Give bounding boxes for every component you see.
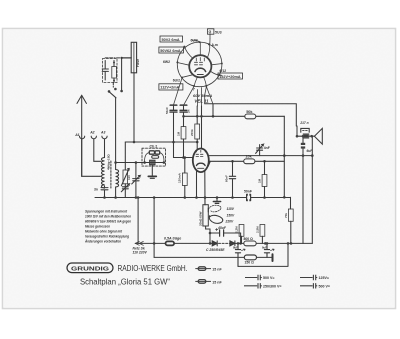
antenna coil L1	[102, 158, 105, 189]
paper speckle	[4, 30, 394, 307]
bandfilter dashed box Ch2	[142, 148, 166, 166]
notes text block	[84, 210, 131, 244]
resistor R10	[261, 236, 263, 243]
chassis plate	[272, 254, 274, 261]
anode wire to transformer	[205, 104, 297, 126]
dial lamp loops	[209, 205, 221, 212]
electrolytic C11 8uF	[235, 243, 240, 266]
capacitor C1 in selector	[102, 61, 108, 81]
capacitor C9 50nF vert	[229, 161, 235, 197]
vertical x154	[153, 198, 155, 258]
wire ballast bottom down	[206, 226, 210, 243]
wire to speaker	[297, 135, 314, 137]
boxed label 50V62 6mA	[159, 47, 184, 53]
speaker LS	[314, 128, 322, 144]
wire bar bottom down	[133, 73, 135, 142]
vertical x138	[137, 198, 139, 244]
variable coil L3	[123, 170, 128, 184]
ground bus y197.5	[95, 197, 291, 199]
internal link wires Ch2	[145, 153, 164, 163]
right vertical from top bus	[283, 116, 285, 197]
resistor R8 70k	[290, 197, 292, 209]
tube V1 inner bulb	[189, 55, 211, 77]
legend cap 250/300V	[244, 283, 262, 288]
oval Cx in Ch2	[152, 156, 159, 159]
twin verticals down	[303, 136, 312, 243]
wire junction down to terminal	[121, 58, 123, 90]
trimmer blocks in Ch2	[149, 151, 154, 154]
tube V1 pin stubs on envelope	[199, 41, 201, 43]
terminal A1	[80, 136, 85, 139]
terminal A2	[91, 136, 96, 139]
wire bus to V2 grid	[174, 142, 193, 158]
resistor R2 200k	[195, 124, 200, 139]
resistor R12 150ohm	[244, 255, 256, 260]
ground symbol below bus	[216, 198, 218, 202]
wire V1 anode right	[205, 87, 207, 104]
resistor R11 800ohm	[244, 241, 256, 246]
electrolytic C12 8uF	[264, 243, 269, 257]
legend capacitor 15nF row2	[195, 280, 211, 284]
antenna symbol	[77, 95, 86, 176]
trimmer capacitor C4	[133, 163, 139, 198]
resistor R5 1M	[264, 161, 266, 174]
top bus y117	[184, 115, 285, 117]
voltage selector plug P1	[112, 67, 117, 79]
wire A3 down to coil top	[104, 139, 106, 158]
wire V2 anode line y161.3	[209, 160, 244, 162]
legend cap 500V	[245, 275, 262, 280]
boxed label G 5U3	[208, 29, 222, 35]
mains voltage selector dashed box	[103, 59, 118, 83]
grid bus y155.8	[209, 155, 312, 157]
trimmer square in Ch2	[150, 160, 155, 164]
mains switch S1	[108, 90, 111, 93]
dash-dot link wire	[110, 57, 121, 59]
wire V1 to V2	[201, 106, 203, 149]
mains bus y243.4	[135, 242, 211, 244]
resistor R1 1M	[181, 127, 186, 139]
bottom bus y266.4	[238, 243, 288, 266]
boxed label 152V 20mA	[218, 73, 243, 79]
GRUNDIG logo	[67, 263, 113, 273]
series capacitor C10 in bus	[247, 194, 250, 201]
fuse F1	[166, 241, 175, 245]
boxed label 112V 2mA	[159, 84, 183, 90]
legend cap 500V right	[300, 283, 317, 288]
output transformer T1	[296, 126, 298, 136]
boxed label 50V2 6mA	[160, 36, 183, 42]
wires V1 bottom pins down	[184, 86, 213, 105]
capacitor C13 45uF wire	[210, 232, 241, 234]
tube V2 pins down	[197, 171, 206, 205]
capacitor C7	[180, 104, 187, 106]
resistor R4 10k	[244, 159, 255, 164]
legend cap 125V	[300, 275, 317, 280]
wire Ch2 to ground	[151, 165, 153, 176]
wire switch to down	[115, 98, 117, 170]
wire y162.5 to bandfilter	[116, 162, 164, 164]
tube V2 envelope	[193, 149, 209, 173]
tube V1 internal electrodes	[195, 62, 203, 65]
tube V1 pin wires	[193, 40, 201, 55]
ground below Ch2	[148, 175, 156, 177]
diode D1	[211, 241, 217, 246]
wire coil L1 bottom to cap	[104, 186, 106, 188]
resistor R3 50k	[245, 114, 256, 119]
wire V1 pin to top bus	[212, 104, 214, 116]
ballast resistor (Urdox)	[203, 205, 208, 226]
resistor R6	[184, 158, 186, 174]
wire A1 down and right to coil	[82, 139, 101, 176]
node mains junction	[120, 57, 122, 59]
wire junction to dial bar	[122, 57, 132, 59]
tube V2 electrodes	[196, 154, 203, 156]
terminal A3	[102, 136, 107, 139]
dial scale bar (Fase)	[131, 42, 136, 73]
capacitor C8 4nF	[257, 145, 263, 156]
wire band bus y142	[125, 141, 197, 143]
wire V1 top pin to G box	[209, 34, 211, 39]
resistor R9	[241, 236, 243, 243]
dashed link	[219, 242, 230, 244]
mains terminal arrows	[135, 242, 143, 246]
tube V1 outer envelope	[177, 42, 222, 87]
transformer core bar	[304, 134, 308, 137]
legend capacitor 15nF row1	[195, 267, 211, 271]
wire cap to diode node	[240, 233, 242, 243]
secondary coil L2	[116, 170, 119, 188]
wire A2 down and right to coil	[94, 139, 101, 161]
coil core dashed	[110, 161, 112, 188]
capacitor C6 50nF	[170, 104, 177, 106]
capacitor C14 6uF	[302, 136, 304, 143]
bus y257.4 with R12	[154, 256, 272, 258]
capacitor C2 3n	[101, 188, 108, 198]
diode D2	[230, 241, 235, 246]
